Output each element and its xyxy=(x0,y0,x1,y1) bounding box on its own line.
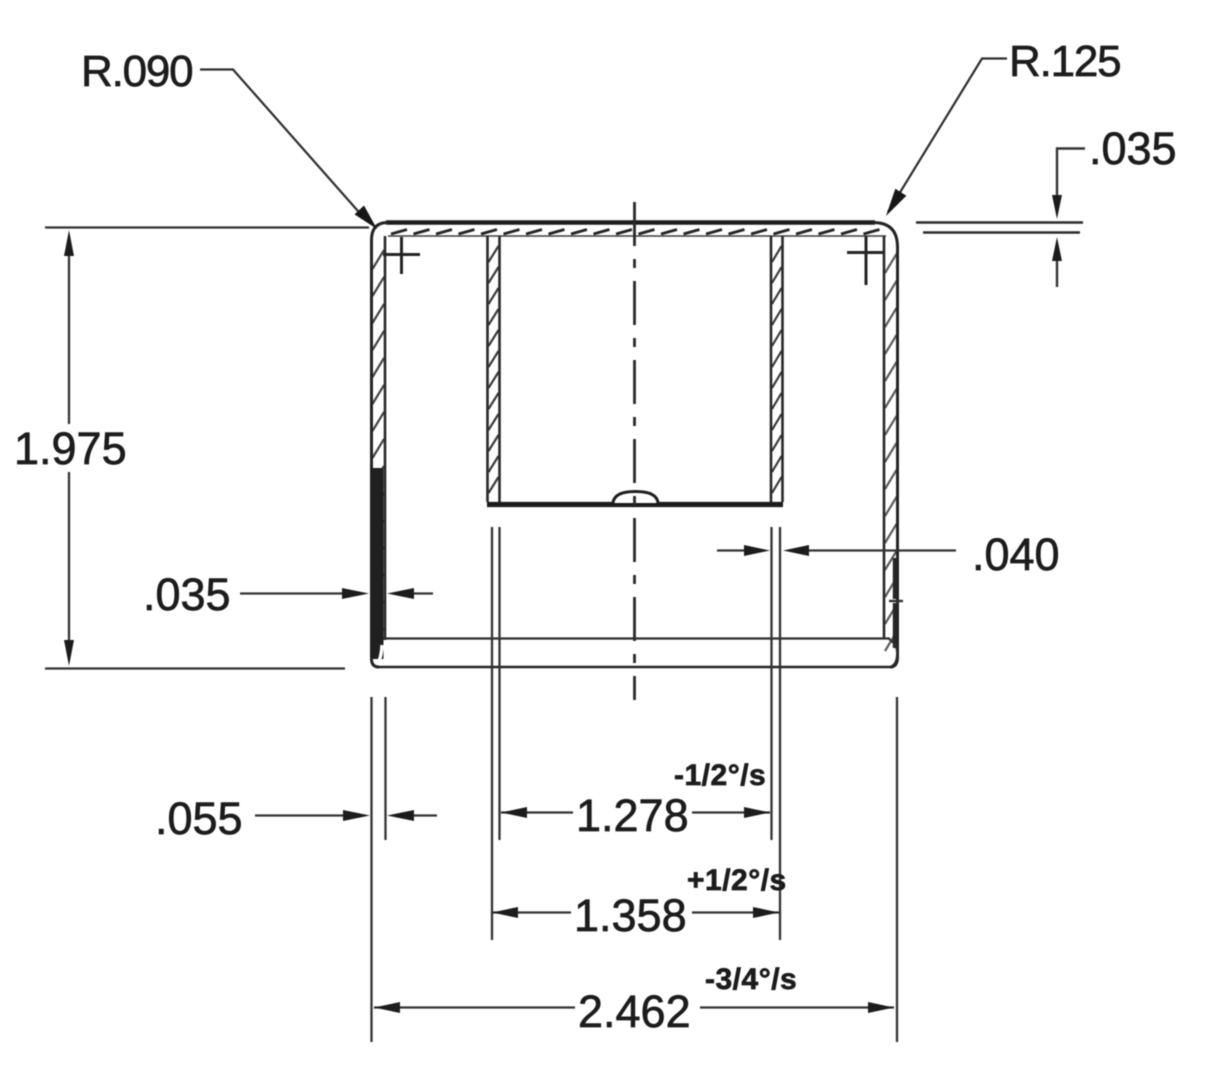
leader R.125 xyxy=(888,59,1007,213)
dome at cavity bottom center xyxy=(613,492,658,504)
part top outer edge xyxy=(386,220,875,224)
svg-text:-1/2°/s: -1/2°/s xyxy=(674,759,766,792)
left rim end xyxy=(379,645,383,662)
dimension line 1.358 xyxy=(492,911,779,913)
.040 arrows xyxy=(744,545,809,556)
svg-text:1.975: 1.975 xyxy=(14,423,127,474)
leader arrowhead R.125 xyxy=(886,189,906,216)
dimension line 1.278 xyxy=(501,811,770,813)
extension line right outer below xyxy=(896,697,898,1042)
part bottom outer edge xyxy=(376,666,893,669)
svg-text:.055: .055 xyxy=(155,793,243,844)
.040 leader xyxy=(717,549,956,551)
sleeve right wall hatching xyxy=(772,246,782,493)
part top inner edge line xyxy=(388,235,886,237)
right wall lower inner shade xyxy=(893,558,896,648)
svg-text:+1/2°/s: +1/2°/s xyxy=(687,864,787,897)
top-right corner radius R.125 xyxy=(873,223,898,248)
part bottom inner edge xyxy=(378,637,890,639)
svg-text:1.358: 1.358 xyxy=(574,890,687,941)
right wall tick xyxy=(889,600,903,602)
left wall hatching xyxy=(373,250,385,647)
dimension line 2.462 xyxy=(374,1006,894,1008)
.035 left arrows xyxy=(342,588,414,599)
svg-text:.035: .035 xyxy=(143,569,231,620)
1.278 arrows xyxy=(501,807,770,818)
part outer wall left xyxy=(372,240,380,667)
extension line sleeve right inner xyxy=(770,527,772,840)
dimension 1.975 arrows xyxy=(64,230,74,666)
svg-text:-3/4°/s: -3/4°/s xyxy=(705,963,797,996)
right wall hatching xyxy=(885,254,897,651)
inner sleeve wall right inner line xyxy=(770,236,773,502)
part inner wall right xyxy=(883,236,886,638)
cavity bottom line xyxy=(487,502,783,507)
part inner wall left xyxy=(384,236,387,640)
dimension 1.975 top extension line xyxy=(45,226,369,228)
svg-text:R.125: R.125 xyxy=(1009,37,1120,86)
right rim end xyxy=(889,639,897,667)
.035 top bracket xyxy=(1057,149,1085,288)
top-left corner radius R.090 xyxy=(372,223,389,241)
1.358 arrows xyxy=(492,907,779,918)
left radius center mark xyxy=(383,237,420,274)
sleeve left wall hatching xyxy=(489,246,499,493)
.035 top arrows xyxy=(1052,195,1062,261)
inner sleeve wall right outer line xyxy=(781,236,784,502)
extension line left inner below xyxy=(384,697,386,840)
inner sleeve wall left outer line xyxy=(486,236,489,502)
inner sleeve wall left inner line xyxy=(498,236,501,502)
svg-text:.035: .035 xyxy=(1089,123,1177,174)
part outer wall right xyxy=(890,247,898,667)
.055 leader xyxy=(255,814,437,816)
extension line sleeve left outer xyxy=(491,527,493,940)
.035 left leader xyxy=(240,592,433,594)
extension line sleeve left inner xyxy=(498,527,500,840)
dimension 1.975 dimension line xyxy=(68,252,70,646)
leader arrowhead R.090 xyxy=(355,206,377,229)
svg-text:2.462: 2.462 xyxy=(578,986,691,1037)
extension line left outer below xyxy=(370,697,372,1042)
svg-text:1.278: 1.278 xyxy=(576,790,689,841)
centerline xyxy=(633,202,636,700)
.055 arrows xyxy=(343,810,414,821)
.035 top reference lower line xyxy=(923,231,1080,234)
left wall lower solid section xyxy=(371,468,383,659)
dimension 1.975 bottom extension line xyxy=(45,667,345,669)
part top wall hatching xyxy=(391,230,880,235)
svg-text:.040: .040 xyxy=(972,529,1060,580)
2.462 arrows xyxy=(374,1002,894,1013)
extension line sleeve right outer xyxy=(779,527,781,940)
svg-text:R.090: R.090 xyxy=(81,47,192,96)
right radius center mark xyxy=(847,236,884,285)
leader R.090 xyxy=(200,70,365,220)
.035 top reference upper line xyxy=(916,221,1083,224)
